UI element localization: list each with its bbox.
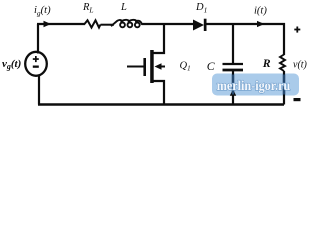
svg-text:merlin-igor.ru: merlin-igor.ru: [217, 78, 291, 93]
mosfet Q1 channel bar: [150, 50, 154, 83]
wire diode to right corner: [206, 23, 285, 25]
inductor L: [111, 20, 142, 27]
current arrow i_g: [44, 21, 52, 27]
wire inductor to diode: [142, 23, 194, 25]
arrow on capacitor branch: [230, 89, 236, 96]
mosfet Q1 source stub: [153, 81, 164, 105]
diode D1: [193, 20, 204, 31]
plus terminal label: [294, 29, 300, 31]
mosfet Q1 gate bar: [143, 58, 146, 76]
svg-text:R: R: [262, 56, 271, 70]
wire load branch through watermark: [283, 75, 285, 95]
mosfet Q1 gate lead: [127, 66, 144, 68]
mosfet Q1 drain stub: [153, 23, 164, 53]
wire top rail left segment: [37, 23, 85, 25]
svg-text:ig(t): ig(t): [34, 5, 51, 18]
wire right branch bottom: [283, 71, 285, 105]
resistor R load: [280, 55, 285, 72]
minus terminal label: [294, 98, 301, 101]
wire right branch top: [283, 23, 285, 55]
svg-text:vg(t): vg(t): [2, 58, 21, 71]
resistor R_L: [85, 20, 101, 27]
wire resistor to inductor: [101, 24, 115, 26]
wire capacitor top: [232, 23, 234, 63]
wire source top to top rail: [37, 24, 39, 54]
svg-text:v(t): v(t): [293, 60, 308, 71]
svg-text:i(t): i(t): [254, 6, 267, 17]
mosfet Q1 body stub with arrow: [159, 66, 165, 68]
capacitor C top plate: [223, 63, 244, 65]
bottom rail wire: [38, 103, 284, 105]
capacitor C bottom plate: [223, 69, 244, 72]
wire capacitor branch through watermark: [232, 75, 234, 95]
current arrow i: [257, 21, 265, 27]
watermark box: [212, 74, 299, 96]
wire capacitor bottom: [232, 71, 234, 105]
svg-text:C: C: [207, 59, 215, 73]
wire source bottom to bottom rail: [38, 75, 40, 105]
voltage source Vg: [25, 52, 47, 76]
svg-text:L: L: [120, 2, 127, 13]
